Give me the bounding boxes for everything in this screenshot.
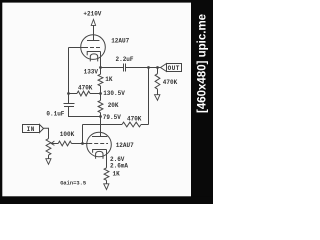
svg-text:2.6mA: 2.6mA — [110, 162, 128, 169]
node grid-rail junction — [67, 92, 70, 95]
svg-text:1K: 1K — [113, 170, 121, 177]
wire 133V node to C2 — [101, 67, 124, 69]
svg-text:IN: IN — [27, 126, 35, 133]
resistor R4 470K output load — [157, 68, 159, 74]
svg-text:470K: 470K — [78, 84, 93, 91]
tube V2 plate — [92, 136, 107, 138]
wire feedback to grid — [82, 125, 84, 144]
svg-text:470K: 470K — [163, 79, 178, 86]
power arrow up B+ — [91, 19, 95, 25]
tube V1 heater — [90, 54, 97, 62]
port IN flag — [23, 125, 44, 133]
wire C2 to OUT — [126, 67, 161, 69]
tube V1 cathode — [87, 52, 100, 56]
frame bottom bar — [0, 196, 213, 204]
node 133V junction — [99, 66, 102, 69]
svg-text:+210V: +210V — [83, 11, 101, 18]
node output junction — [156, 66, 159, 69]
node 130.5V junction — [99, 92, 102, 95]
node V2 grid junction — [81, 142, 84, 145]
tube V2 12AU7 envelope — [87, 132, 112, 157]
svg-text:20K: 20K — [108, 102, 119, 109]
ground arrow below R4 — [155, 95, 160, 101]
resistor R1 470K grid bias — [69, 93, 78, 95]
svg-text:12AU7: 12AU7 — [116, 142, 134, 149]
potentiometer VR1 body — [46, 139, 51, 156]
port OUT flag — [161, 64, 182, 72]
frame left bar — [0, 0, 2, 204]
svg-text:133V: 133V — [84, 68, 99, 75]
capacitor C1 0.1uF plates — [64, 103, 75, 105]
tube V2 cathode — [93, 150, 107, 153]
resistor R5 470K feedback — [141, 124, 149, 126]
svg-text:12AU7: 12AU7 — [111, 38, 129, 45]
frame right watermark strip — [191, 0, 213, 204]
wire feedback drop — [148, 68, 150, 125]
svg-text:2.2uF: 2.2uF — [116, 56, 134, 63]
wire V1 cathode lead — [100, 52, 102, 68]
wire V2 plate lead — [100, 117, 102, 137]
wire left grid rail — [68, 48, 70, 94]
potentiometer wiper arrow — [51, 141, 54, 145]
wire C1 bottom lead to 79.5V node — [69, 107, 101, 117]
wire V1 grid lead — [69, 47, 85, 49]
capacitor C1 0.1uF top lead — [68, 94, 70, 104]
svg-text:OUT: OUT — [168, 65, 180, 72]
svg-text:Gain=3.5: Gain=3.5 — [60, 180, 86, 186]
ground arrow below R6 — [104, 184, 109, 190]
svg-text:[460x480] upic.me: [460x480] upic.me — [197, 14, 209, 113]
resistor R2 1K — [98, 74, 103, 86]
tube V2 grid — [88, 143, 108, 145]
svg-text:470K: 470K — [127, 116, 142, 123]
ground arrow below pot — [46, 159, 51, 165]
capacitor C2 2.2uF plates — [123, 64, 125, 72]
tube V1 plate — [87, 40, 99, 42]
resistor R6 1K cathode — [104, 168, 109, 181]
tube V2 heater — [96, 151, 103, 158]
wire IN to pot — [43, 128, 48, 138]
tube V1 grid — [84, 47, 101, 49]
resistor R3 20K — [98, 100, 103, 112]
resistor R7 100K grid — [58, 141, 71, 146]
wire +210V supply lead — [93, 25, 95, 40]
svg-text:1K: 1K — [105, 76, 113, 83]
svg-text:0.1uF: 0.1uF — [46, 111, 64, 118]
frame top bar — [0, 0, 213, 3]
svg-text:79.5V: 79.5V — [103, 114, 121, 121]
wire V2 cathode lead — [106, 150, 108, 168]
svg-text:130.5V: 130.5V — [103, 90, 125, 97]
node 79.5V junction — [99, 115, 102, 118]
svg-text:100K: 100K — [60, 131, 75, 138]
node feedback tap junction — [147, 66, 150, 69]
tube V1 12AU7 envelope — [81, 35, 106, 60]
